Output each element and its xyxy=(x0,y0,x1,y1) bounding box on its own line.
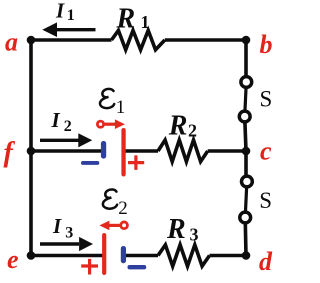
wire a-f-e left vertical xyxy=(29,40,33,256)
battery E2 plus sign xyxy=(81,259,98,275)
node a xyxy=(27,36,36,45)
svg-text:e: e xyxy=(7,245,19,274)
svg-text:a: a xyxy=(5,28,18,57)
EMF E1 direction arrow (red, pointing right) xyxy=(105,123,116,126)
switch S2 blade xyxy=(245,182,247,218)
svg-text:1: 1 xyxy=(116,97,126,118)
svg-text:R: R xyxy=(166,214,186,245)
current arrow I3 (pointing right) xyxy=(40,242,79,245)
battery E1 plus sign xyxy=(128,155,144,170)
node c xyxy=(242,147,251,156)
svg-text:R: R xyxy=(168,111,188,142)
battery E2 minus sign xyxy=(128,265,147,269)
current arrow I1 (pointing left) xyxy=(56,28,96,31)
battery E2 negative plate (blue) xyxy=(121,246,126,263)
svg-text:2: 2 xyxy=(118,198,128,219)
wire R3 to d xyxy=(210,254,247,258)
wire S2 to d xyxy=(243,218,247,256)
current arrow I2 (pointing right) xyxy=(40,139,79,142)
battery E2 positive plate (red) xyxy=(102,233,106,275)
svg-text:S: S xyxy=(259,188,272,213)
resistor R2 xyxy=(158,140,208,162)
battery E1 positive plate (red) xyxy=(121,128,125,177)
svg-text:2: 2 xyxy=(188,121,197,141)
wire a-b top segment left of R1 xyxy=(31,38,112,42)
wire R2 to c xyxy=(208,149,246,153)
svg-text:I: I xyxy=(55,0,65,23)
svg-text:1: 1 xyxy=(67,7,75,24)
svg-text:I: I xyxy=(51,108,61,132)
wire S1 to c xyxy=(245,117,246,152)
switch S1 contact circles xyxy=(241,77,252,88)
wire f to battery E1 xyxy=(31,149,101,153)
switch S2 contact circles xyxy=(242,176,253,187)
label EMF E2 (script E) xyxy=(103,190,117,209)
battery E1 negative plate (blue) xyxy=(101,141,106,159)
label EMF E1 (script E) xyxy=(100,89,114,108)
wire b to switch S1 xyxy=(244,40,248,80)
switch S1 blade xyxy=(245,82,247,117)
svg-text:b: b xyxy=(260,30,273,59)
svg-text:3: 3 xyxy=(65,224,73,241)
svg-text:c: c xyxy=(260,137,272,166)
node d xyxy=(242,251,251,260)
svg-text:1: 1 xyxy=(141,12,150,32)
svg-text:R: R xyxy=(116,4,136,35)
node e xyxy=(27,251,36,260)
svg-text:2: 2 xyxy=(64,118,72,135)
wire R1 to b xyxy=(165,38,246,42)
wire E1 to R2 xyxy=(125,149,159,153)
wire c to switch S2 xyxy=(244,151,248,180)
wire e to battery E2 xyxy=(31,254,103,258)
wire E2 to R3 xyxy=(125,254,159,258)
resistor R1 xyxy=(112,30,165,49)
svg-text:d: d xyxy=(259,247,273,276)
svg-text:S: S xyxy=(260,87,273,112)
svg-text:I: I xyxy=(52,214,62,238)
resistor R3 xyxy=(158,245,210,266)
svg-text:3: 3 xyxy=(190,224,199,244)
battery E1 minus sign xyxy=(81,161,99,165)
node b xyxy=(242,36,251,45)
node f xyxy=(27,147,36,156)
EMF E2 direction arrow (red, pointing left) xyxy=(109,224,120,227)
